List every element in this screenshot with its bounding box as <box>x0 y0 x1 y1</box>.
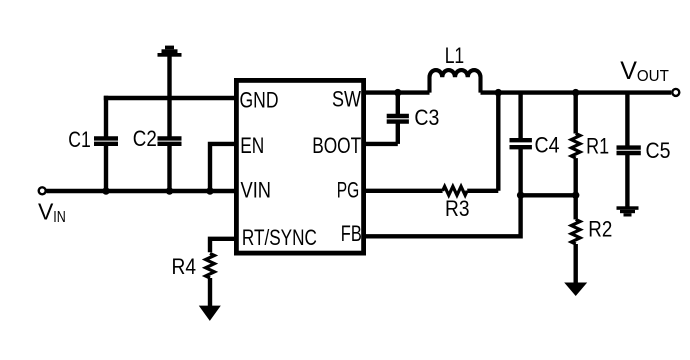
capacitor C2 <box>158 138 182 191</box>
svg-text:C4: C4 <box>535 133 560 158</box>
capacitor C4 <box>510 93 532 196</box>
ground (R2, arrow) <box>564 283 587 297</box>
capacitor C5 <box>617 93 641 208</box>
svg-text:R3: R3 <box>445 196 470 221</box>
node R1-R2 junction <box>572 192 579 199</box>
svg-text:V: V <box>38 199 54 225</box>
svg-text:BOOT: BOOT <box>312 133 361 158</box>
svg-text:C3: C3 <box>414 105 439 130</box>
wire FB <box>366 195 521 236</box>
svg-text:SW: SW <box>332 87 361 112</box>
resistor R1 <box>571 93 580 196</box>
wire R4 to ground <box>208 278 212 307</box>
svg-text:RT/SYNC: RT/SYNC <box>242 225 317 250</box>
svg-text:V: V <box>620 57 637 85</box>
node VOUT-PG junction <box>495 89 502 96</box>
svg-text:PG: PG <box>337 178 360 203</box>
svg-text:R4: R4 <box>172 254 197 279</box>
svg-text:FB: FB <box>341 221 362 246</box>
svg-text:C5: C5 <box>646 138 671 163</box>
label VIN net <box>38 199 66 226</box>
wire PG <box>366 189 443 193</box>
capacitor C1 <box>94 96 118 191</box>
svg-text:OUT: OUT <box>637 68 669 85</box>
op-amp U1 (converter IC body) <box>236 80 363 253</box>
svg-text:L1: L1 <box>445 43 465 68</box>
ground (C5, chassis style) <box>617 206 639 216</box>
node EN-VIN junction <box>206 187 213 194</box>
wire SW <box>366 90 430 94</box>
node SW-C3 junction <box>394 89 401 96</box>
wire VOUT rail <box>481 90 672 94</box>
terminal VOUT <box>672 89 679 96</box>
wire FB node connector <box>521 193 576 197</box>
wire C2 branch / ground stem <box>167 54 171 138</box>
wire R3 to riser <box>467 189 498 193</box>
wire VIN rail <box>47 189 237 193</box>
inductor L1 <box>430 70 481 93</box>
wire EN to VIN rail <box>210 144 236 191</box>
svg-text:GND: GND <box>240 88 279 113</box>
ground (R4, arrow) <box>199 306 221 321</box>
svg-text:VIN: VIN <box>241 178 272 203</box>
label VOUT net <box>620 57 669 85</box>
node C2-VIN junction <box>166 187 173 194</box>
wire PG pullup riser <box>496 93 500 191</box>
node C4-FB junction <box>517 192 524 199</box>
svg-text:IN: IN <box>53 209 66 226</box>
wire GND rail <box>104 96 236 100</box>
capacitor C3 <box>387 93 409 144</box>
resistor R4 <box>206 253 215 278</box>
wire RT/SYNC stub <box>210 239 236 253</box>
svg-text:EN: EN <box>240 133 264 158</box>
svg-text:C1: C1 <box>68 127 91 152</box>
svg-text:R2: R2 <box>588 217 612 242</box>
resistor R3 <box>443 186 468 195</box>
svg-text:R1: R1 <box>586 134 609 159</box>
terminal VIN <box>39 187 46 194</box>
wire BOOT stub <box>366 142 398 146</box>
node VOUT-R1 junction <box>572 89 579 96</box>
svg-text:C2: C2 <box>133 126 157 151</box>
resistor R2 <box>571 195 580 284</box>
ground (top, chassis style) <box>158 46 182 57</box>
node C1-VIN junction <box>102 187 109 194</box>
